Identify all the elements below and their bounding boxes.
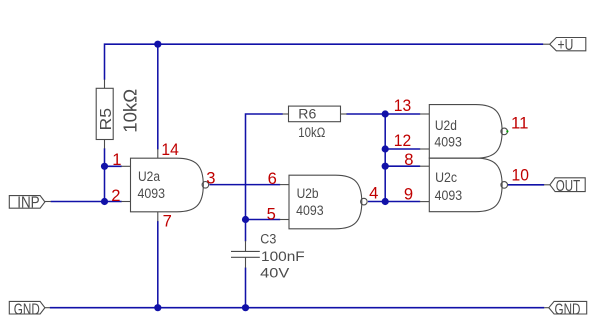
svg-text:13: 13 (394, 96, 411, 115)
svg-text:4093: 4093 (435, 187, 463, 203)
svg-text:40V: 40V (260, 264, 290, 280)
capacitor C3 (231, 250, 260, 252)
wire pin9 (385, 201, 420, 203)
op-amp U2a NAND gate body (131, 158, 204, 212)
node bus pin9 junction (382, 198, 389, 205)
svg-text:U2a: U2a (138, 168, 160, 184)
svg-text:9: 9 (404, 184, 413, 203)
node pin1 junction (101, 163, 108, 170)
svg-text:12: 12 (394, 131, 411, 150)
wire +U tip stub (543, 43, 550, 45)
wire GND right tip stub (544, 307, 549, 309)
wire INP to pin2 (51, 201, 122, 203)
wire R5 top pin stub (104, 80, 106, 89)
svg-text:100nF: 100nF (261, 248, 305, 264)
wire bottom GND rail (50, 307, 545, 309)
wire pin12 stub (420, 148, 430, 150)
svg-text:10kΩ: 10kΩ (120, 89, 141, 133)
wire pin13 stub (420, 113, 430, 115)
wire pin10 to OUT (508, 184, 545, 186)
svg-text:GND: GND (555, 301, 581, 318)
wire bus vertical (384, 114, 386, 202)
svg-text:11: 11 (511, 114, 528, 133)
wire INP tip stub (45, 201, 51, 203)
svg-text:4093: 4093 (138, 185, 166, 201)
svg-text:+U: +U (558, 37, 574, 54)
svg-text:3: 3 (206, 169, 215, 188)
svg-text:2: 2 (111, 186, 120, 205)
wire pin3 to pin6 (209, 184, 280, 186)
wire R5 bottom to pin2 junction (104, 148, 106, 201)
wire OUT tip stub (544, 184, 550, 186)
wire pin9 stub (420, 201, 430, 203)
wire pin7 stub (157, 212, 159, 222)
svg-text:10: 10 (512, 165, 529, 184)
ground flag right (549, 301, 587, 314)
svg-text:U2b: U2b (297, 185, 319, 201)
wire pin14 stub (157, 149, 159, 158)
svg-text:GND: GND (14, 301, 40, 318)
wire C3 bottom pin stub (245, 257, 247, 267)
svg-text:8: 8 (404, 150, 413, 169)
wire pin7 vertical (157, 221, 159, 308)
svg-text:10kΩ: 10kΩ (298, 124, 325, 140)
wire pin12 (385, 148, 420, 150)
op-amp U2d NAND gate body (429, 105, 502, 159)
wire R6 right to bus (346, 113, 385, 115)
node OUT port flag (550, 178, 585, 192)
wire pin13 (385, 113, 420, 115)
wire pin1 (105, 165, 122, 167)
node pin7 GND junction (154, 304, 161, 311)
wire pin5 (246, 219, 281, 221)
wire pin6 stub (280, 184, 289, 186)
node bus pin12 junction (382, 145, 389, 152)
svg-text:5: 5 (267, 204, 276, 223)
svg-text:14: 14 (161, 140, 178, 159)
resistor R5 (96, 88, 113, 139)
svg-text:4093: 4093 (296, 202, 324, 218)
wire R6 left stub (283, 113, 289, 115)
svg-text:C3: C3 (260, 231, 276, 247)
resistor R6 (289, 106, 341, 122)
svg-text:U2d: U2d (435, 117, 457, 133)
wire pin14 vertical (157, 44, 159, 149)
wire C3 top pin stub (245, 241, 247, 251)
wire R6 left down to pin5 node (246, 114, 283, 220)
wire pin8 (385, 165, 420, 167)
node bus pin13 junction (382, 110, 389, 117)
wire GND left tip stub (45, 307, 50, 309)
svg-text:6: 6 (268, 169, 277, 188)
node pin2 junction (101, 198, 108, 205)
svg-text:1: 1 (112, 150, 121, 169)
node top rail junction (154, 41, 161, 48)
wire pin1 stub (121, 165, 130, 167)
node +U supply flag (550, 38, 586, 51)
node pin5 junction (242, 216, 249, 223)
wire C3 bottom to rail (245, 268, 247, 308)
svg-text:7: 7 (163, 212, 172, 231)
wire pin8 stub (420, 165, 430, 167)
op-amp U2c NAND gate body (429, 158, 502, 212)
svg-text:INP: INP (17, 194, 40, 211)
wire top rail +U net (105, 44, 544, 80)
svg-text:4: 4 (369, 184, 378, 203)
wire pin5 stub (280, 219, 289, 221)
svg-text:4093: 4093 (434, 133, 462, 149)
wire R6 right stub (341, 113, 347, 115)
svg-text:R5: R5 (97, 108, 115, 131)
wire R5 bottom pin stub (104, 140, 106, 149)
svg-text:R6: R6 (298, 106, 316, 122)
ground flag left (9, 301, 45, 314)
svg-text:OUT: OUT (556, 178, 580, 195)
node pin11 open end (506, 130, 508, 132)
wire pin2 stub (121, 201, 130, 203)
wire pin5 node to C3 top (245, 220, 247, 242)
svg-text:U2c: U2c (435, 169, 457, 185)
node bus pin8 junction (382, 163, 389, 170)
wire pin4 to bus (368, 201, 385, 203)
node INP port flag (9, 196, 45, 209)
node C3 GND junction (242, 304, 249, 311)
op-amp U2b NAND gate body (289, 175, 362, 229)
